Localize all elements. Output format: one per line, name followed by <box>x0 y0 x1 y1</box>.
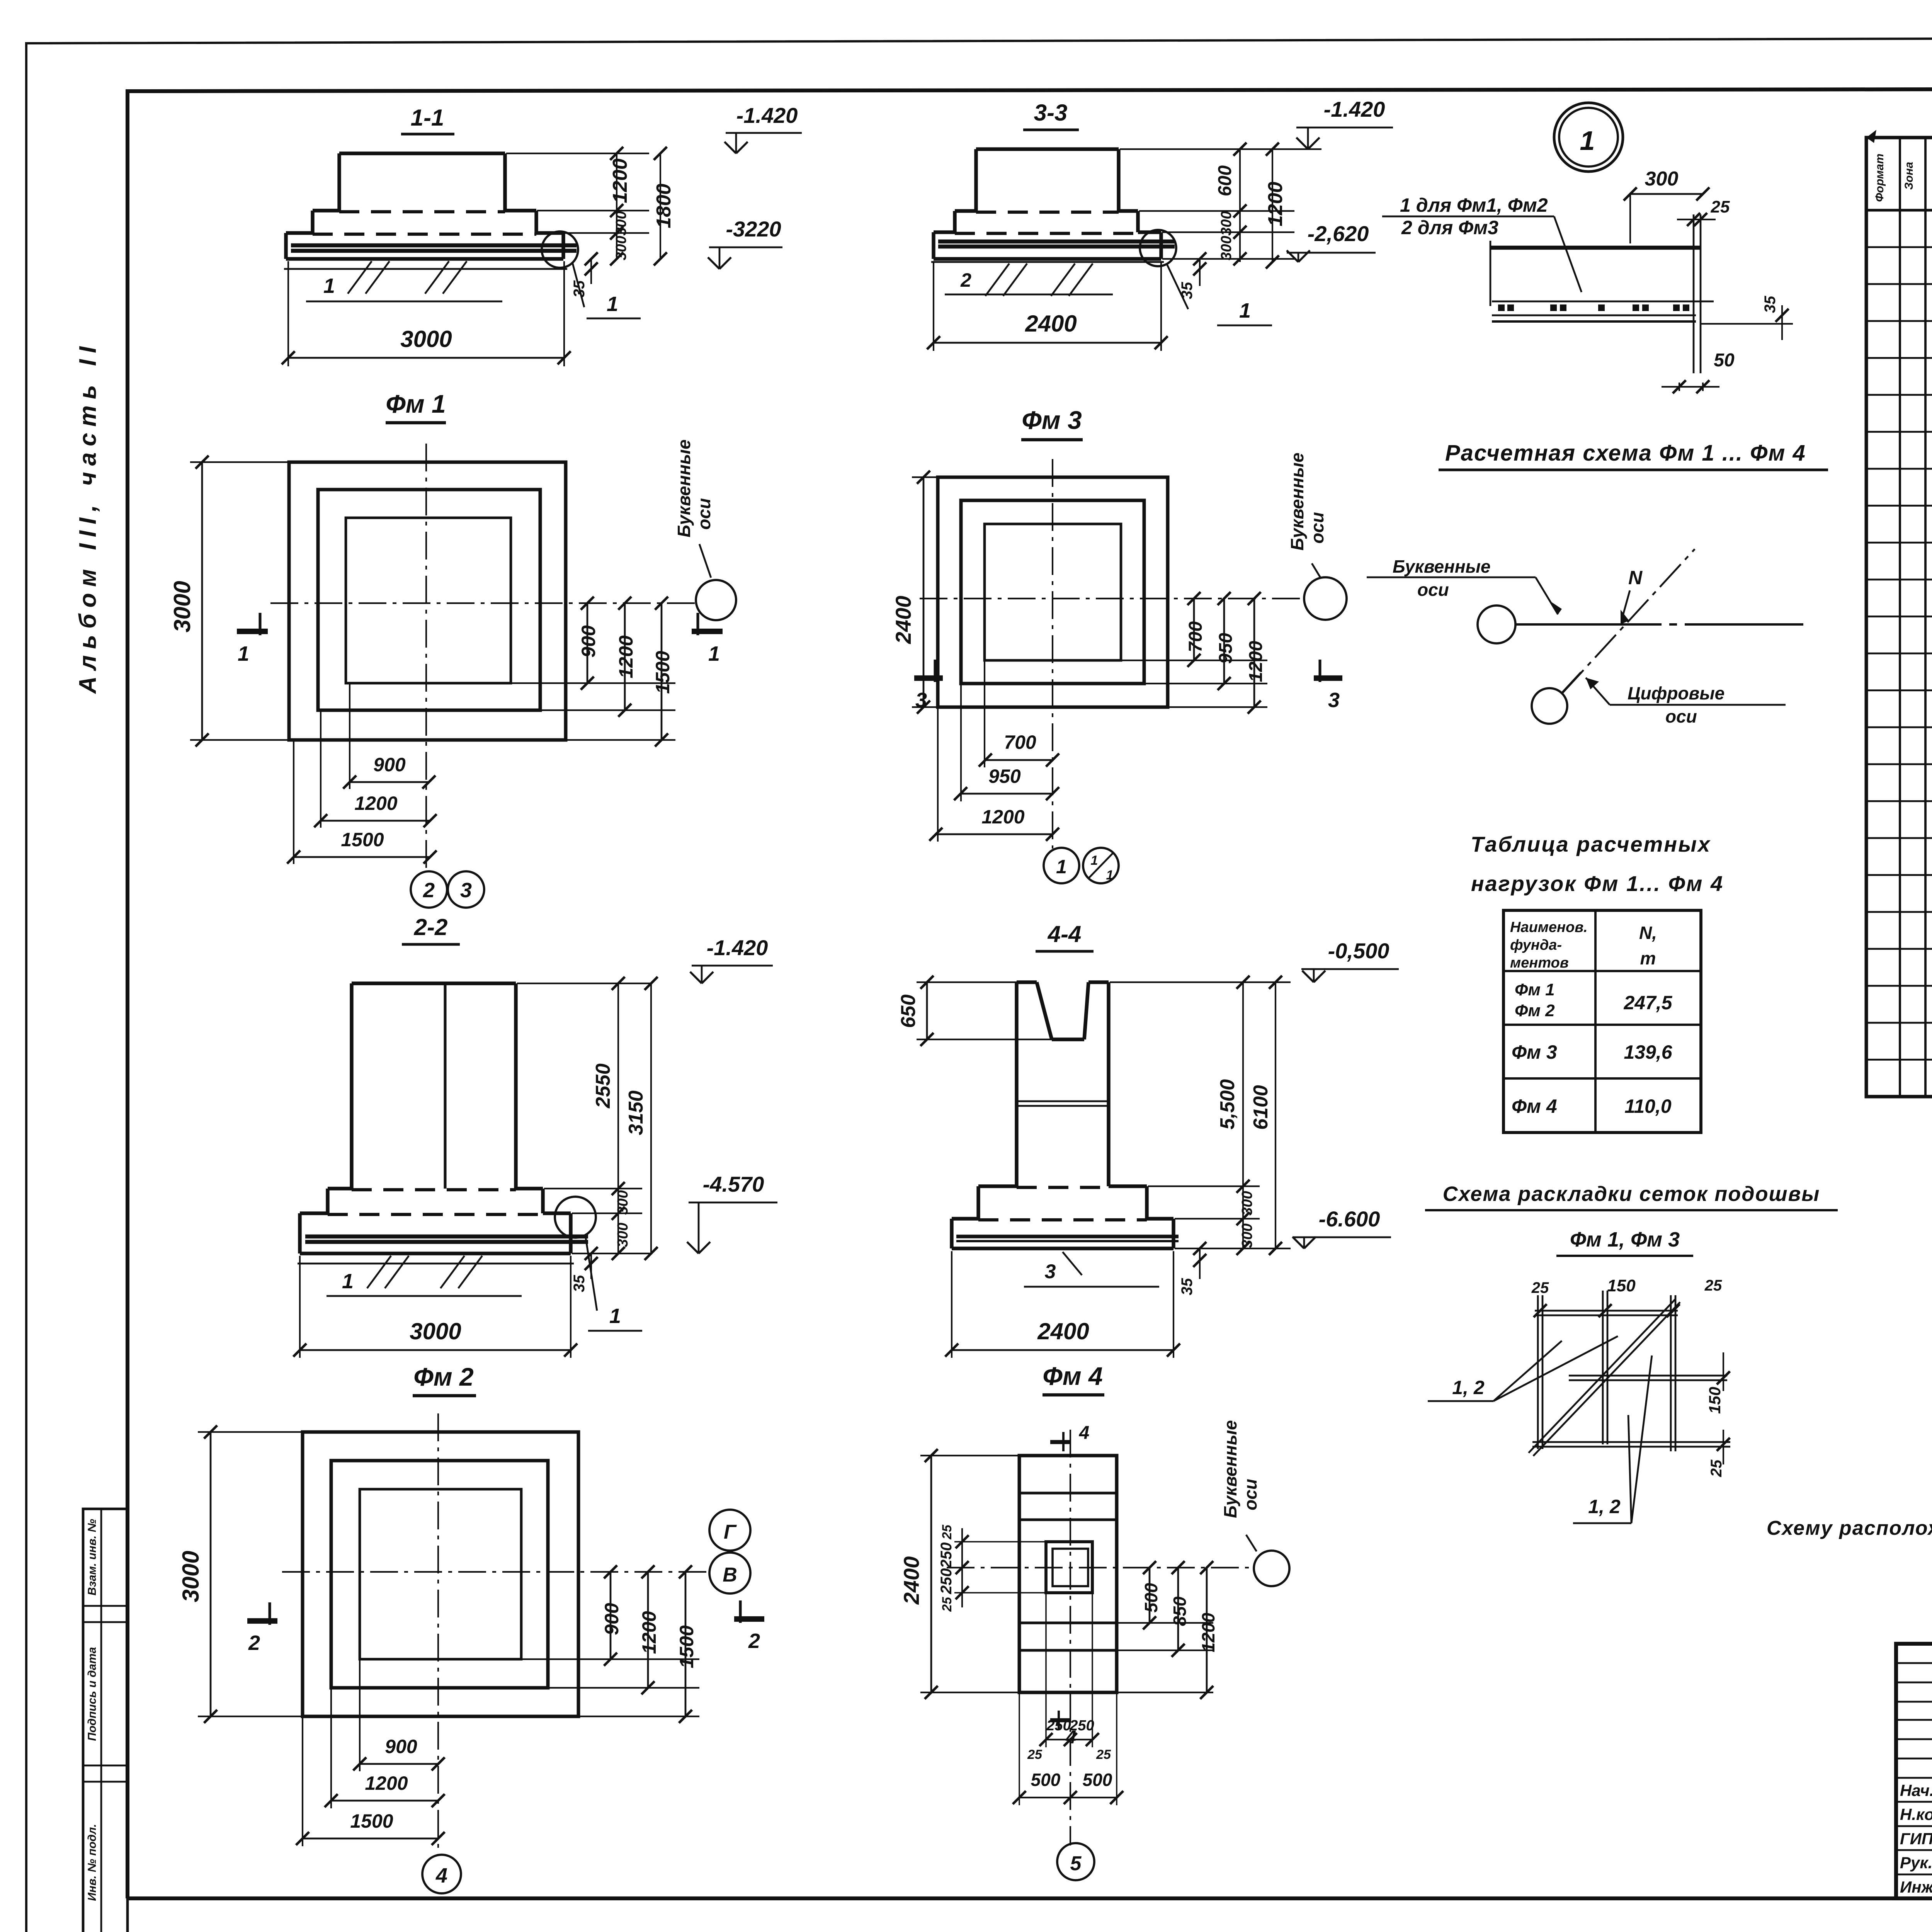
svg-text:1: 1 <box>1106 868 1114 883</box>
section 1-1 middle step <box>313 209 339 212</box>
svg-text:т: т <box>1640 948 1656 968</box>
svg-text:3000: 3000 <box>410 1318 461 1344</box>
svg-text:Зона: Зона <box>1903 162 1915 190</box>
svg-text:Фм 2: Фм 2 <box>413 1362 474 1391</box>
specification table header line <box>1866 209 1932 211</box>
svg-text:В: В <box>723 1564 737 1586</box>
svg-text:300: 300 <box>615 1223 631 1247</box>
plan FM4 section mark 4 bottom <box>1050 1718 1071 1723</box>
section 3-3 right dim chain <box>1120 148 1321 150</box>
section 4-4 column with socket <box>1017 980 1037 984</box>
svg-text:Фм 1: Фм 1 <box>1515 980 1555 999</box>
svg-text:2: 2 <box>960 269 971 291</box>
section 2-2 right dim chain <box>517 983 652 984</box>
section 2-2 column <box>352 981 516 985</box>
section 1-1 reinforcement mesh <box>291 243 577 248</box>
section 1-1 hatch marks <box>348 261 372 294</box>
svg-text:Альбом III, часть II: Альбом III, часть II <box>75 340 101 694</box>
svg-text:-0,500: -0,500 <box>1328 939 1389 963</box>
svg-text:2400: 2400 <box>1037 1318 1089 1344</box>
section 1-1 dim 3000 <box>287 261 289 366</box>
plan FM1 middle square <box>318 490 540 710</box>
svg-text:25: 25 <box>1711 197 1730 216</box>
svg-text:1: 1 <box>342 1270 354 1293</box>
svg-text:250: 250 <box>938 1543 955 1569</box>
svg-text:650: 650 <box>897 995 920 1028</box>
plan FM1 right dims 900 1200 1500 <box>511 682 675 684</box>
svg-text:500: 500 <box>1141 1583 1161 1612</box>
svg-text:250: 250 <box>1069 1718 1094 1734</box>
svg-text:850: 850 <box>1170 1596 1190 1626</box>
plan FM1 section mark 1 left <box>237 629 268 634</box>
section 3-3 reinforcement mesh <box>938 240 1175 244</box>
svg-text:1: 1 <box>1091 853 1098 868</box>
plan FM4 axis circle 5 <box>1057 1843 1094 1880</box>
svg-text:4: 4 <box>1079 1423 1090 1443</box>
svg-text:110,0: 110,0 <box>1624 1095 1672 1117</box>
svg-text:1200: 1200 <box>1246 641 1266 682</box>
svg-text:1, 2: 1, 2 <box>1588 1496 1621 1517</box>
section 3-3 dim 35 <box>1199 259 1201 286</box>
svg-text:900: 900 <box>373 754 406 776</box>
section 2-2 dim 3000 <box>299 1256 301 1358</box>
detail 1 mesh wire squares <box>1498 304 1505 311</box>
svg-text:N,: N, <box>1639 923 1657 943</box>
section 2-2 upper step <box>328 1187 352 1190</box>
section 3-3 top step <box>976 147 1119 151</box>
svg-text:25: 25 <box>1531 1279 1549 1296</box>
section 1-1 ground line <box>284 268 567 270</box>
plan FM1 centerlines <box>425 444 427 872</box>
svg-text:Фм 1: Фм 1 <box>386 389 446 418</box>
svg-text:500: 500 <box>1031 1770 1061 1790</box>
plan FM4 horizontal edges <box>1019 1492 1117 1494</box>
svg-text:2-2: 2-2 <box>414 914 448 940</box>
left margin stamp table <box>83 1509 128 1932</box>
svg-text:Н.контр.: Н.контр. <box>1900 1805 1932 1823</box>
svg-text:оси: оси <box>1307 512 1327 544</box>
svg-text:-6.600: -6.600 <box>1319 1207 1380 1231</box>
plan FM3 axis circle letter <box>1304 577 1347 620</box>
section 1-1 dim 35 <box>590 259 592 284</box>
mesh layout horizontal wires <box>1535 1310 1678 1312</box>
section 2-2 hatch marks <box>367 1256 391 1288</box>
plan FM2 inner square <box>360 1489 521 1659</box>
svg-text:25: 25 <box>940 1597 954 1612</box>
svg-text:300: 300 <box>615 1190 631 1214</box>
plan FM3 axis circle 1/1 <box>1083 848 1119 883</box>
svg-text:950: 950 <box>1216 633 1236 664</box>
svg-text:4-4: 4-4 <box>1048 921 1082 947</box>
svg-text:Наименов.: Наименов. <box>1510 919 1588 935</box>
svg-text:Схема раскладки сеток подошвы: Схема раскладки сеток подошвы <box>1443 1182 1820 1206</box>
svg-text:5: 5 <box>1070 1852 1082 1875</box>
svg-text:3000: 3000 <box>400 326 452 352</box>
section 3-3 dim 2400 <box>933 261 934 351</box>
svg-text:50: 50 <box>1714 350 1735 371</box>
svg-text:300: 300 <box>1239 1191 1255 1215</box>
section 3-3 slab bottom <box>934 257 1161 260</box>
svg-text:35: 35 <box>571 280 588 298</box>
section 3-3 slab <box>934 230 955 234</box>
svg-text:Подпись и дата: Подпись и дата <box>86 1647 99 1741</box>
svg-text:300: 300 <box>613 211 629 235</box>
svg-text:900: 900 <box>601 1603 622 1635</box>
plan FM2 axis circle V <box>709 1553 750 1594</box>
svg-text:1: 1 <box>323 274 335 298</box>
svg-text:3000: 3000 <box>169 581 195 632</box>
svg-text:2: 2 <box>423 879 435 902</box>
detail 1 double circle <box>1554 103 1623 172</box>
plan FM2 centerlines <box>437 1413 439 1855</box>
calc scheme horizontal axis line <box>1515 623 1662 626</box>
svg-text:25: 25 <box>940 1524 954 1540</box>
plan FM2 axis circle G <box>709 1510 750 1551</box>
svg-text:3: 3 <box>1328 689 1340 712</box>
svg-text:1500: 1500 <box>676 1625 697 1668</box>
plan FM2 section mark 2 left <box>247 1618 277 1624</box>
specification table column lines <box>1899 138 1901 1097</box>
svg-text:5,500: 5,500 <box>1216 1079 1239 1129</box>
plan FM4 section mark 4 top <box>1050 1440 1071 1444</box>
section 4-4 slab <box>952 1217 978 1220</box>
svg-text:700: 700 <box>1185 621 1206 652</box>
svg-text:2: 2 <box>248 1631 260 1655</box>
svg-text:Фм 4: Фм 4 <box>1043 1362 1102 1390</box>
plan FM2 right dims 900 1200 1500 <box>521 1658 699 1660</box>
svg-text:4: 4 <box>435 1864 447 1887</box>
svg-text:-1.420: -1.420 <box>736 103 798 128</box>
mesh layout diagonal wire <box>1529 1299 1675 1453</box>
svg-text:35: 35 <box>1179 1278 1196 1295</box>
svg-text:900: 900 <box>578 625 599 658</box>
loads table grid <box>1503 910 1701 1133</box>
plan FM3 centerlines <box>1052 459 1053 849</box>
svg-text:Буквенные: Буквенные <box>674 439 694 537</box>
plan FM3 right dims 700 950 1200 <box>1121 660 1267 661</box>
section 1-1 right dim chain <box>506 153 649 154</box>
svg-text:250: 250 <box>938 1568 955 1595</box>
section 4-4 dim 35 <box>1199 1248 1201 1279</box>
section 2-2 lower step <box>300 1211 328 1215</box>
section 2-2 dim 35 <box>590 1253 592 1279</box>
calc scheme letter axis circle <box>1478 605 1515 643</box>
svg-text:1: 1 <box>708 642 720 665</box>
plan FM1 axis circle 2 <box>411 871 447 908</box>
title block frame <box>1896 1644 1932 1898</box>
plan FM3 inner square <box>985 524 1121 660</box>
svg-text:Таблица расчетных: Таблица расчетных <box>1471 832 1711 856</box>
svg-text:1200: 1200 <box>1198 1612 1218 1652</box>
plan FM2 outer square <box>303 1432 578 1716</box>
svg-text:1500: 1500 <box>652 651 673 694</box>
plan FM1 axis circle 3 <box>448 871 484 908</box>
svg-text:2400: 2400 <box>1025 311 1077 337</box>
svg-text:Г: Г <box>724 1521 737 1543</box>
svg-text:3150: 3150 <box>625 1090 647 1135</box>
svg-text:N: N <box>1628 567 1643 588</box>
svg-text:3-3: 3-3 <box>1034 100 1068 126</box>
title block left rows <box>1896 1662 1932 1664</box>
plan FM4 centerlines <box>1070 1430 1071 1845</box>
plan FM2 middle square <box>331 1461 548 1688</box>
svg-text:700: 700 <box>1004 731 1036 753</box>
svg-text:оси: оси <box>694 498 714 530</box>
svg-text:1500: 1500 <box>341 829 384 850</box>
plan FM4 axis circle letter <box>1254 1551 1289 1586</box>
svg-text:Рук. БР.: Рук. БР. <box>1900 1854 1932 1872</box>
svg-text:1, 2: 1, 2 <box>1452 1377 1485 1398</box>
svg-text:Буквенные: Буквенные <box>1393 556 1491 577</box>
svg-text:Взам. инв. №: Взам. инв. № <box>86 1519 99 1595</box>
specification corner mark <box>1866 130 1876 143</box>
svg-text:2 для Фм3: 2 для Фм3 <box>1401 217 1498 238</box>
section 1-1 detail circle <box>542 231 578 268</box>
plan FM1 bottom dims 900 1200 1500 <box>349 683 350 789</box>
section 3-3 middle step <box>955 209 976 213</box>
svg-text:оси: оси <box>1417 580 1449 600</box>
section 4-4 step <box>978 1184 1017 1188</box>
svg-text:Цифровые: Цифровые <box>1628 683 1725 703</box>
plan FM1 outer square <box>289 462 566 740</box>
svg-text:25: 25 <box>1027 1747 1043 1762</box>
specification table frame <box>1866 138 1932 1097</box>
svg-text:247,5: 247,5 <box>1623 992 1672 1014</box>
plan FM4 dim 2400 left <box>920 1455 1019 1456</box>
section 1-1 slab bottom <box>286 257 563 260</box>
svg-text:35: 35 <box>1179 282 1196 299</box>
section 3-3 ground line <box>931 261 1164 263</box>
svg-text:25: 25 <box>1704 1277 1722 1294</box>
svg-text:Нач. ОТП: Нач. ОТП <box>1900 1781 1932 1799</box>
svg-text:1 для Фм1, Фм2: 1 для Фм1, Фм2 <box>1400 194 1548 216</box>
svg-text:Формат: Формат <box>1873 153 1886 202</box>
plan FM4 right dims 500 850 1200 <box>1117 1622 1213 1624</box>
svg-text:1200: 1200 <box>981 806 1024 828</box>
svg-text:Инженер: Инженер <box>1900 1878 1932 1896</box>
svg-text:1500: 1500 <box>350 1810 393 1832</box>
plan FM1 axis circle letter <box>696 580 736 620</box>
svg-text:300: 300 <box>1645 168 1679 190</box>
svg-text:Инв. № подл.: Инв. № подл. <box>86 1824 99 1901</box>
svg-text:35: 35 <box>571 1275 588 1292</box>
plan FM3 outer square <box>938 477 1168 707</box>
plan FM4 outer rectangle <box>1019 1456 1117 1692</box>
svg-text:1200: 1200 <box>638 1611 660 1654</box>
svg-text:3: 3 <box>1045 1260 1056 1283</box>
svg-text:300: 300 <box>1239 1223 1255 1248</box>
section 3-3 detail circle <box>1140 230 1176 266</box>
plan FM1 section mark 1 right <box>692 629 723 634</box>
svg-text:6100: 6100 <box>1250 1085 1272 1130</box>
svg-text:600: 600 <box>1215 165 1235 196</box>
svg-text:-3220: -3220 <box>726 217 781 241</box>
calc scheme digit axis circle <box>1532 688 1567 724</box>
svg-text:Фм 2: Фм 2 <box>1515 1001 1555 1020</box>
section 4-4 reinforcement mesh <box>956 1235 1179 1238</box>
svg-text:2400: 2400 <box>891 596 915 645</box>
svg-text:1200: 1200 <box>365 1772 408 1794</box>
plan FM4 bottom dims 250 250 25 500 500 <box>1045 1593 1047 1747</box>
plan FM2 dim 3000 left <box>198 1431 303 1433</box>
svg-text:Буквенные: Буквенные <box>1287 452 1307 551</box>
svg-text:Фм 4: Фм 4 <box>1512 1095 1557 1117</box>
detail 1 slab edge <box>1490 246 1701 250</box>
svg-text:1800: 1800 <box>653 184 675 228</box>
plan FM2 bottom dims 900 1200 1500 <box>359 1659 361 1771</box>
section 1-1 bottom step <box>286 231 313 235</box>
svg-text:150: 150 <box>1607 1276 1636 1295</box>
svg-text:139,6: 139,6 <box>1624 1041 1672 1063</box>
svg-text:Расчетная схема Фм 1 ... Фм: Расчетная схема Фм 1 ... Фм 4 <box>1445 440 1806 466</box>
svg-text:-4.570: -4.570 <box>703 1172 764 1196</box>
svg-text:1200: 1200 <box>354 793 397 814</box>
plan FM4 left small dims 25 250 250 25 <box>961 1528 963 1607</box>
svg-text:Схему расположения фундаментов: Схему расположения фундаментов см. на ли… <box>1767 1517 1932 1539</box>
section 2-2 detail circle <box>555 1197 596 1238</box>
svg-text:300: 300 <box>613 236 629 260</box>
plan FM2 axis circle 4 <box>422 1855 461 1893</box>
svg-text:Фм 3: Фм 3 <box>1512 1041 1557 1063</box>
plan FM4 socket outer square <box>1046 1542 1092 1593</box>
svg-text:25: 25 <box>1708 1459 1725 1477</box>
plan FM3 middle square <box>961 500 1144 684</box>
plan FM3 section mark 3 right <box>1314 675 1342 681</box>
svg-text:3000: 3000 <box>178 1551 204 1602</box>
svg-text:950: 950 <box>988 765 1021 787</box>
svg-text:1: 1 <box>609 1304 621 1328</box>
svg-text:1200: 1200 <box>1264 182 1287 226</box>
svg-text:250: 250 <box>1046 1718 1071 1734</box>
svg-text:150: 150 <box>1706 1387 1724 1414</box>
svg-text:-2,620: -2,620 <box>1308 221 1369 246</box>
calc scheme diagonal axis line <box>1563 549 1695 693</box>
svg-text:300: 300 <box>1218 211 1235 235</box>
svg-text:1: 1 <box>1580 126 1595 156</box>
svg-text:-1.420: -1.420 <box>707 935 768 960</box>
svg-text:1200: 1200 <box>609 158 631 203</box>
svg-text:3: 3 <box>460 879 472 902</box>
svg-text:25: 25 <box>1096 1747 1111 1762</box>
svg-text:1-1: 1-1 <box>411 105 444 131</box>
plan FM4 socket inner square <box>1053 1549 1088 1586</box>
svg-text:1200: 1200 <box>615 635 637 678</box>
svg-text:Фм 3: Фм 3 <box>1022 406 1082 434</box>
svg-text:1: 1 <box>1239 299 1251 322</box>
plan FM1 inner square <box>346 518 511 683</box>
svg-text:1: 1 <box>1056 856 1067 878</box>
section 2-2 ground line <box>298 1263 574 1265</box>
svg-text:3: 3 <box>915 689 927 712</box>
section 4-4 right dim chain <box>1110 981 1291 983</box>
section 4-4 slab bottom <box>952 1247 1173 1250</box>
svg-text:900: 900 <box>385 1736 417 1757</box>
svg-text:нагрузок Фм 1... Фм 4: нагрузок Фм 1... Фм 4 <box>1471 871 1724 896</box>
plan FM3 dim 2400 left <box>912 476 938 478</box>
svg-text:2: 2 <box>748 1629 760 1653</box>
section 3-3 hatch marks <box>985 264 1009 296</box>
plan FM3 axis circle 1 <box>1044 848 1079 883</box>
svg-text:500: 500 <box>1083 1770 1112 1790</box>
svg-text:оси: оси <box>1240 1479 1260 1510</box>
section 4-4 dim 650 left <box>917 981 1017 983</box>
svg-text:Фм 1, Фм 3: Фм 1, Фм 3 <box>1570 1228 1680 1251</box>
svg-text:1: 1 <box>607 293 618 316</box>
plan FM3 section mark 3 left <box>914 675 943 681</box>
plan FM3 bottom dims 700 950 1200 <box>984 660 985 767</box>
svg-text:2550: 2550 <box>592 1063 614 1109</box>
svg-text:2400: 2400 <box>899 1556 923 1605</box>
section 4-4 dim 2400 <box>951 1251 952 1358</box>
section 2-2 reinforcement mesh <box>305 1235 588 1239</box>
plan FM2 section mark 2 right <box>734 1616 764 1622</box>
svg-text:ментов: ментов <box>1510 955 1569 971</box>
detail 1 right edge lines <box>1693 214 1695 373</box>
specification table row lines <box>1866 246 1932 248</box>
svg-text:фунда-: фунда- <box>1510 937 1562 953</box>
svg-text:оси: оси <box>1665 706 1697 726</box>
section 1-1 top step <box>339 151 505 155</box>
section 2-2 slab bottom <box>300 1252 571 1255</box>
plan FM1 dim 3000 left <box>190 461 289 463</box>
svg-text:300: 300 <box>1218 236 1235 260</box>
svg-text:-1.420: -1.420 <box>1324 97 1385 121</box>
svg-text:Буквенные: Буквенные <box>1220 1420 1240 1518</box>
svg-text:1: 1 <box>238 642 249 665</box>
mesh layout vertical wires <box>1537 1295 1539 1449</box>
svg-text:ГИП: ГИП <box>1900 1830 1932 1848</box>
svg-text:35: 35 <box>1762 296 1779 313</box>
